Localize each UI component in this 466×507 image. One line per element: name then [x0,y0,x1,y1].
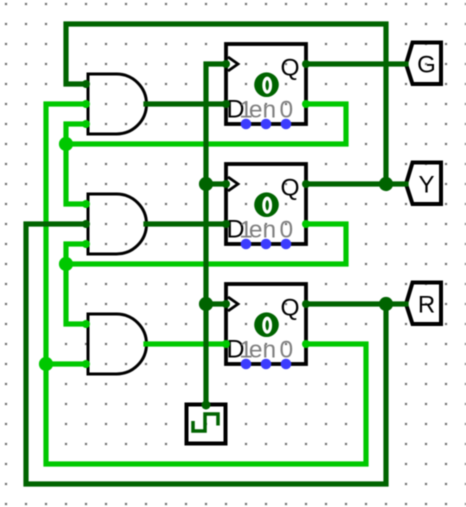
FF2 (yellow) unconnected south ports (floating) [241,239,252,250]
wire net Y (low): FF2 Q to pin Y and AND1 in1 [66,24,406,191]
D flip-flop FF3 (red) [226,284,306,369]
wire net AND3 out (high) to FF3 D [146,340,230,348]
junction at (386,304) [379,297,393,311]
FF3 (red) clock triangle marker [228,297,238,311]
wire net CLK: clock source to FF1/FF2/FF3 clock inputs [199,60,230,410]
clock waveform symbol [193,414,218,431]
svg-text:en: en [249,336,276,363]
junction at (206,184) [199,177,213,191]
wire net AND2 out (low) to FF2 D [146,220,230,228]
junction at (66,264) [59,257,73,271]
svg-text:en: en [249,96,276,123]
svg-text:Y: Y [418,172,434,199]
svg-text:Q: Q [280,175,299,202]
wire net G (low): FF1 Q to pin G [302,60,406,68]
svg-text:en: en [249,216,276,243]
D flip-flop FF1 (green) [226,44,306,129]
wire net AND1 out (low) to FF1 D [146,100,230,108]
FF3 (red) unconnected south ports (floating) [241,359,252,370]
FF1 (green) clock triangle marker [228,57,238,71]
AND gate U2 [88,194,147,254]
wire net R (low): FF3 Q to pin R and AND2 in2 [26,220,406,484]
svg-text:Q: Q [280,55,299,82]
output pin Y [406,163,441,205]
junction at (46,364) [39,357,53,371]
svg-text:Q: Q [280,295,299,322]
wire net FF2-Qbar (high): FF2 Q' to AND2 in3 and AND3 in1 [59,220,346,328]
AND gate U3 (2-input) [88,314,147,374]
svg-text:R: R [418,292,435,319]
clock source CLK1 [187,405,226,444]
clock output port [202,401,211,410]
output pin G [406,43,441,85]
wire net FF1-Qbar (high): FF1 Q' to AND1 in3 and AND2 in1 [59,100,346,208]
FF2 (yellow) clock triangle marker [228,177,238,191]
svg-text:G: G [417,52,436,79]
AND gate U1 [88,74,147,134]
output pin R [406,283,441,325]
FF1 (green) unconnected south ports (floating) [241,119,252,130]
FF1 (green) state indicator value 0 [254,72,279,97]
FF3 (red) state indicator value 0 [254,312,279,337]
wire net FF3-Qbar (high): FF3 Q' to AND1 in2 and AND3 in3 [39,100,366,464]
junction at (206,304) [199,297,213,311]
junction at (386,184) [379,177,393,191]
D flip-flop FF2 (yellow) [226,164,306,249]
FF2 (yellow) state indicator value 0 [254,192,279,217]
junction at (66,144) [59,137,73,151]
